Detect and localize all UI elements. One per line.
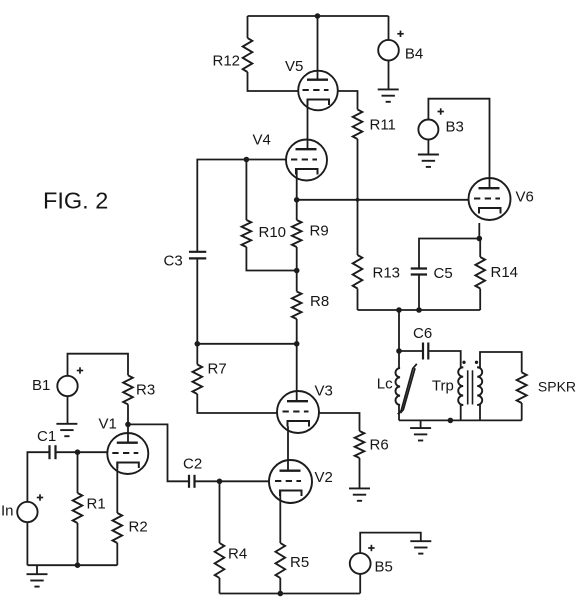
junction dot R10 tap (244, 157, 250, 163)
wire V1 plate node to C2 (128, 424, 189, 481)
wire R4 bottom lead (219, 578, 221, 594)
wire V3 grid right to R6 (319, 413, 360, 431)
ground below tank (410, 428, 431, 440)
svg-text:V4: V4 (253, 132, 271, 149)
tube V6 (469, 178, 511, 220)
svg-text:R3: R3 (136, 382, 155, 399)
junction dot R9-R10-R8 node (294, 268, 300, 274)
resistor R10 (242, 220, 252, 247)
junction dot V6 cathode node (477, 236, 483, 242)
resistor R7 (193, 365, 203, 395)
wire Lc bottom lead (398, 405, 400, 421)
wire R13/C5/R14 bottom rail (358, 309, 481, 311)
svg-text:R6: R6 (370, 437, 389, 454)
wire R11 bottom to R13 top (357, 139, 359, 255)
svg-text:R12: R12 (213, 53, 241, 70)
wire R9 top lead (296, 200, 298, 220)
resistor R2 (113, 513, 123, 543)
inductor Lc body lead (398, 351, 400, 368)
junction dot R4 tap (217, 479, 223, 485)
junction dot tank tap (396, 307, 402, 313)
svg-text:B5: B5 (375, 559, 393, 576)
wire R8-node to C3-node (197, 343, 296, 345)
ground near B5 (410, 541, 431, 553)
wire V3 plate lead (296, 344, 298, 401)
resistor R6 (355, 431, 365, 458)
transformer core lines (468, 370, 473, 404)
svg-text:FIG. 2: FIG. 2 (43, 188, 108, 214)
wire R9 to R8 (296, 247, 298, 292)
svg-text:V2: V2 (315, 469, 333, 486)
tube V5 (298, 71, 338, 111)
wire C6 right lead to Trp primary (428, 351, 460, 367)
wire R3 bottom lead (127, 404, 129, 424)
wire R4 top lead (219, 481, 221, 543)
wire R14 top lead (479, 239, 481, 258)
resistor R1 (73, 493, 83, 523)
svg-text:B3: B3 (446, 119, 464, 136)
battery B1 (57, 367, 83, 396)
capacitor C5 (411, 269, 427, 275)
junction dot V4 cathode node (294, 197, 300, 203)
junction dot tank bottom (448, 418, 454, 424)
wire R13 bottom lead (357, 289, 359, 311)
tube V1 (107, 433, 148, 474)
svg-text:V5: V5 (285, 58, 303, 75)
wire Trp primary bottom lead (461, 405, 464, 421)
wire C3 node to R7 (196, 344, 198, 365)
ground below R6 (349, 488, 370, 500)
tube V2 (269, 460, 312, 503)
svg-text:C2: C2 (183, 456, 202, 473)
svg-text:In: In (1, 503, 14, 520)
resistor R11 (353, 110, 363, 140)
wire input ground stem (36, 565, 38, 574)
wire R1 top lead (77, 452, 79, 493)
inductor Lc slug line (398, 364, 417, 414)
wire R8 bottom lead (296, 319, 298, 344)
svg-text:Trp: Trp (432, 377, 454, 394)
wire R12 top lead (247, 16, 249, 38)
svg-text:R13: R13 (373, 265, 401, 282)
wire R6 bottom lead (359, 458, 361, 488)
battery In (input source) (17, 494, 43, 522)
svg-text:SPKR: SPKR (538, 379, 576, 395)
wire input bottom rail (27, 564, 117, 566)
wire R5 bottom lead (279, 578, 281, 594)
wire B5 top lead to ground (360, 533, 421, 554)
junction dot C5 bottom (416, 307, 422, 313)
svg-text:V1: V1 (99, 416, 117, 433)
wire C5 bottom lead (418, 275, 420, 311)
resistor R3 (123, 375, 133, 404)
wire R12 bottom to V5 grid (248, 72, 299, 91)
wire V5 cathode to V4 plate (307, 100, 309, 150)
wire R10 bottom to R9/R8 node (246, 247, 296, 271)
svg-text:C5: C5 (434, 265, 453, 282)
svg-text:R10: R10 (259, 224, 287, 241)
resistor R8 (292, 292, 302, 320)
wire V3 cathode to V2 plate (287, 427, 289, 471)
svg-text:V3: V3 (315, 383, 333, 400)
wire C2 to V2 grid (195, 480, 270, 482)
wire C1 to V1 grid (56, 451, 108, 453)
wire V5 grid right to R11 (338, 91, 358, 110)
svg-text:R14: R14 (491, 264, 519, 281)
svg-text:C6: C6 (413, 325, 432, 342)
wire top rail (248, 15, 389, 17)
wire V5 plate lead (317, 16, 319, 80)
wire R2 bottom lead (116, 543, 118, 565)
battery B4 (378, 31, 404, 61)
resistor R5 (276, 543, 286, 578)
wire In bottom lead (26, 522, 28, 565)
wire V1 cathode to R2 (116, 463, 118, 514)
wire Trp primary top bend (461, 366, 464, 368)
ground below B1 (56, 424, 77, 436)
wire R7 bottom to V3 grid (197, 394, 277, 413)
wire Trp secondary bottom lead (477, 405, 480, 421)
resistor R12 (243, 38, 253, 72)
svg-text:V6: V6 (516, 189, 534, 206)
wire C6 left lead (399, 350, 423, 352)
phasing dot primary (462, 361, 465, 364)
svg-text:B1: B1 (32, 377, 50, 394)
wire In source top lead (27, 452, 49, 502)
wire R1 bottom lead (77, 523, 79, 565)
svg-text:R4: R4 (228, 546, 247, 563)
wire Trp secondary top lead to SPKR (477, 352, 522, 372)
junction dot R1 tap (75, 449, 81, 455)
inductor Lc winding (396, 368, 401, 405)
svg-text:R9: R9 (310, 223, 329, 240)
resistor SPKR (speaker) (517, 372, 527, 403)
wire V1 plate lead (127, 424, 129, 442)
svg-text:R2: R2 (129, 519, 148, 536)
capacitor C1 (50, 445, 56, 459)
wire B4 top lead (388, 16, 390, 40)
phasing dot secondary (475, 361, 478, 364)
wire B5 bottom lead (359, 574, 361, 594)
junction dot C3-R7 node (195, 341, 201, 347)
wire B3 bottom lead (427, 140, 429, 155)
wire C3 bottom to R7 node (196, 258, 198, 343)
wire output stage bottom rail (220, 593, 360, 595)
transformer Trp primary winding (458, 367, 463, 405)
svg-text:R1: R1 (87, 496, 106, 513)
resistor R4 (215, 543, 225, 578)
svg-text:C3: C3 (164, 253, 183, 270)
tube V3 (277, 391, 319, 433)
wire cathode node to C5 top (419, 239, 479, 269)
wire tank ground stem (420, 420, 422, 428)
junction small dot at grid-wire crossing (356, 198, 360, 202)
resistor R14 (475, 257, 485, 289)
svg-text:B4: B4 (405, 46, 423, 63)
wire B3 to V6 plate (428, 99, 489, 188)
svg-text:R11: R11 (370, 117, 396, 134)
wire tank drop (398, 310, 400, 351)
wire R10 top lead (245, 160, 247, 221)
wire B1 top to R3 top (68, 354, 129, 376)
capacitor C2 (189, 475, 195, 488)
wire B4 bottom lead (388, 61, 390, 90)
wire V4 cathode to V6 grid (long rail) (297, 199, 469, 201)
wire SPKR bottom lead (521, 403, 523, 420)
svg-text:C1: C1 (37, 428, 56, 445)
svg-text:R7: R7 (208, 361, 227, 378)
wire tank bottom rail (399, 419, 522, 421)
wire V4 cathode lead (296, 170, 298, 200)
capacitor C3 (189, 252, 206, 259)
wire B1 bottom lead (67, 396, 69, 424)
wire V4 grid to C3 branch (197, 160, 286, 252)
junction dot V5 plate tap (315, 13, 321, 19)
wire V6 cathode lead (478, 223, 480, 239)
junction dot R5 bottom (278, 591, 284, 597)
junction dot Lc top / C6 tap (396, 348, 402, 354)
capacitor C6 (423, 343, 428, 360)
svg-text:Lc: Lc (377, 376, 393, 393)
svg-text:R8: R8 (310, 293, 329, 310)
battery B5 (350, 545, 375, 574)
battery B3 (418, 108, 444, 139)
junction dot R1 bottom (75, 562, 81, 568)
resistor R9 (292, 220, 302, 247)
resistor R13 (353, 255, 363, 289)
ground below B4 (378, 89, 399, 101)
svg-text:R5: R5 (290, 554, 309, 571)
wire R14 bottom lead (479, 289, 481, 311)
tube V4 (286, 140, 327, 181)
junction dot R8 bottom node (294, 341, 300, 347)
junction dot V1 plate node (125, 422, 131, 428)
wire V2 cathode to R5 (279, 491, 281, 544)
ground input stage (27, 574, 48, 586)
ground below B3 (418, 155, 439, 167)
transformer Trp secondary winding (477, 367, 482, 405)
